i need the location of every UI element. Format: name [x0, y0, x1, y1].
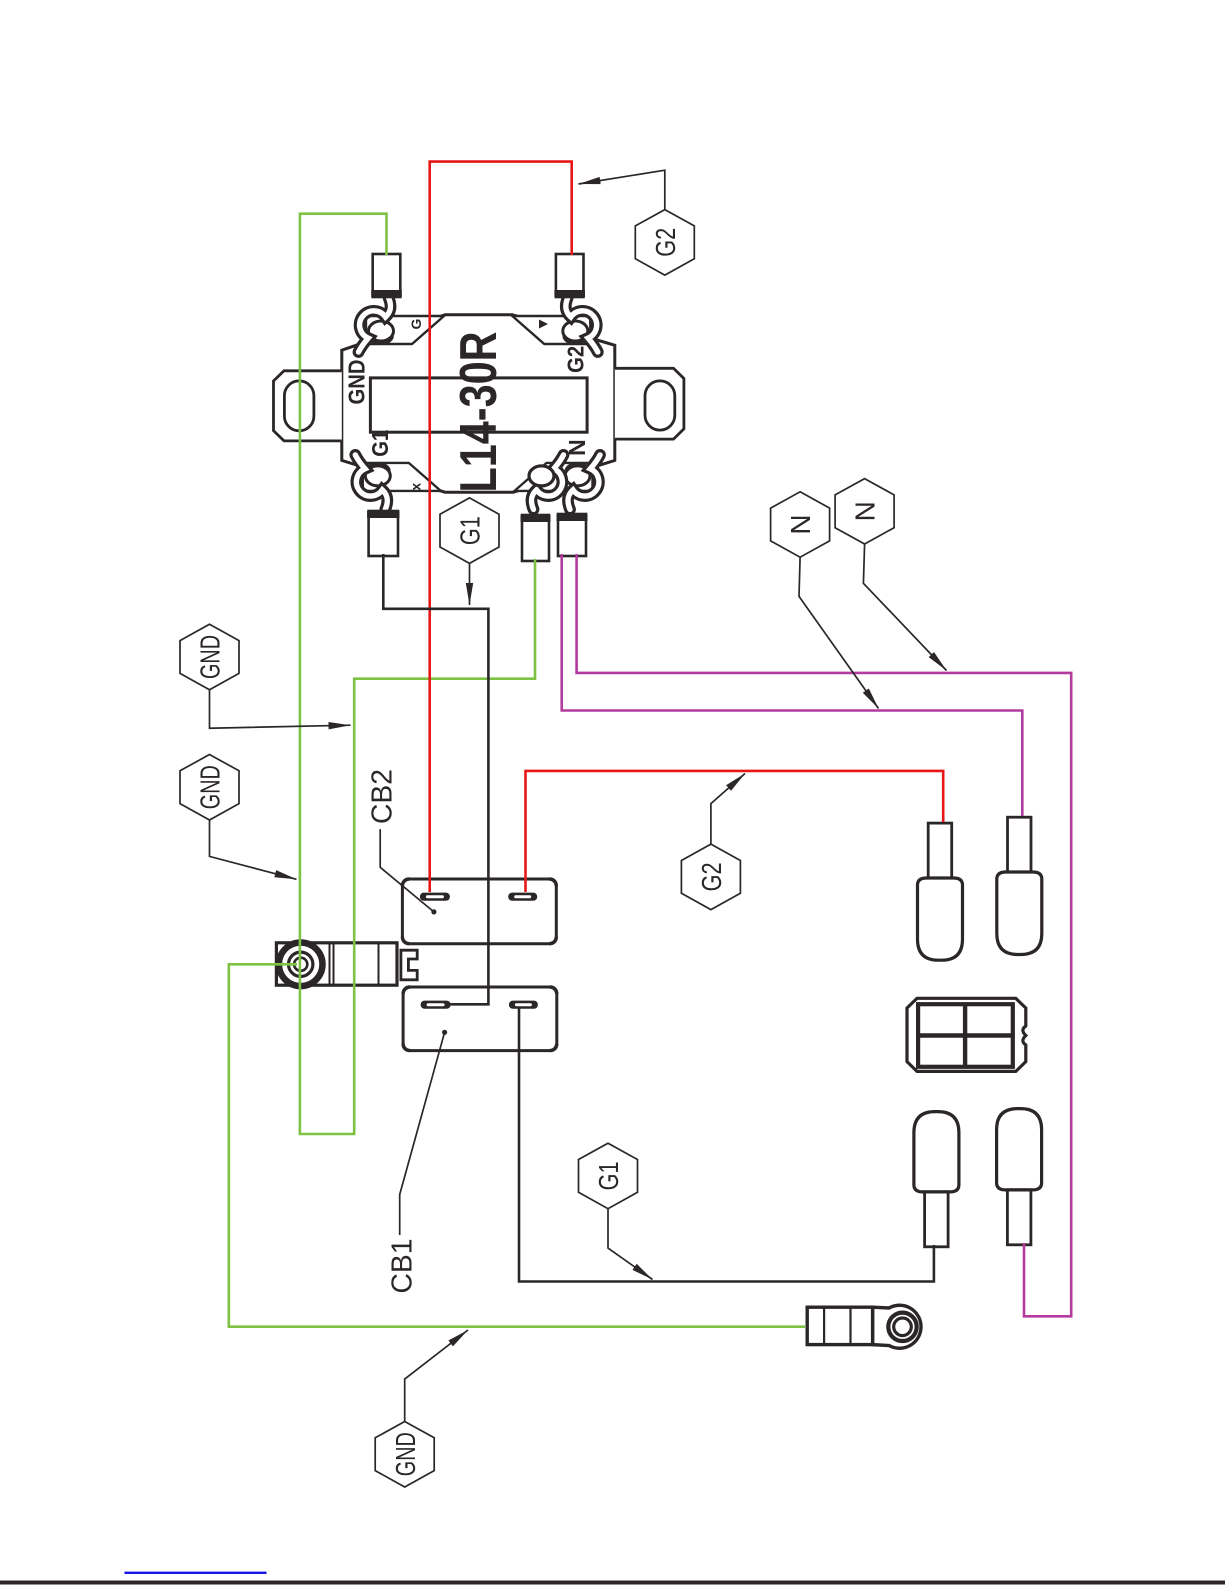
net flag N left (N) — [771, 492, 830, 557]
net flag G2 top (G2) — [635, 210, 694, 276]
wire black G1 (receptacle to CB1) — [383, 554, 488, 1004]
footer link underline (blue) — [125, 1572, 267, 1574]
leader line N right to magenta wire — [863, 544, 946, 671]
ferrule GND wire crimp — [371, 254, 402, 297]
terminal label G1 — [367, 430, 393, 457]
wire green ground jumper (ring terminal to ring terminal) — [229, 964, 805, 1326]
small terminal mark G — [408, 318, 424, 329]
leader line G2 top to red wire — [579, 170, 665, 210]
wire green GND loop (receptacle GND terminal to W terminal) — [300, 214, 535, 1134]
terminal label GND — [343, 360, 369, 405]
leader line GND upper to green wire — [210, 690, 351, 728]
bullet connector upper right (magenta) — [997, 817, 1042, 954]
receptacle face rectangle — [370, 378, 587, 432]
net flag GND upper (GND) — [180, 624, 239, 690]
svg-text:G2: G2 — [650, 228, 681, 257]
mounting ear left — [274, 371, 342, 441]
svg-text:GND: GND — [343, 360, 369, 405]
leader line G1 mid to black wire — [469, 563, 471, 605]
terminal plate+screw+hook GND (top-left) — [359, 298, 445, 353]
svg-text:L14-30R: L14-30R — [450, 332, 508, 493]
bullet connector lower left (black) — [914, 1112, 959, 1247]
svg-text:CB1: CB1 — [387, 1239, 419, 1294]
wire black G1 feed (CB1 to bullet) — [519, 1007, 934, 1282]
svg-text:CB2: CB2 — [367, 769, 399, 824]
svg-text:GND: GND — [195, 635, 226, 679]
net flag G1 mid (G1) — [440, 498, 499, 564]
label CB1 with leader — [387, 1030, 448, 1294]
mounting ear right — [615, 368, 684, 439]
page bottom border — [0, 1581, 1225, 1585]
svg-text:N: N — [564, 439, 590, 456]
net flag G2 bottom (G2) — [681, 844, 740, 910]
ring terminal (engine ground, left) — [276, 943, 417, 987]
ferrule N wire crimp — [557, 514, 588, 556]
small terminal mark W arrow — [539, 320, 548, 329]
wire magenta N (receptacle to bullet upper) — [562, 554, 1023, 816]
small terminal mark X — [408, 483, 424, 491]
wire red G2 (CB2 to receptacle G2 terminal) — [430, 162, 572, 892]
bullet connector lower right (magenta) — [997, 1109, 1042, 1245]
net flag GND bottom (GND) — [375, 1422, 434, 1488]
receptacle text L14-30R — [450, 332, 508, 493]
bullet connector upper left (red) — [918, 823, 963, 960]
wire red G2 feed (CB2 to bullet) — [526, 771, 944, 892]
leader line G1 bottom to black wire — [608, 1209, 653, 1280]
terminal label G2 — [563, 346, 589, 373]
ring terminal (ground lug, bottom) — [807, 1305, 921, 1348]
receptacle body L14-30R outlet (octagon) — [342, 315, 615, 493]
svg-text:N: N — [785, 514, 816, 534]
ferrule W wire crimp — [521, 515, 551, 561]
svg-text:G2: G2 — [696, 862, 727, 891]
4-way connector block — [907, 998, 1026, 1071]
svg-text:G1: G1 — [593, 1161, 624, 1190]
leader line GND bottom to green wire — [405, 1330, 468, 1422]
svg-text:G1: G1 — [455, 516, 486, 545]
terminal label N — [564, 439, 590, 456]
svg-text:GND: GND — [390, 1432, 421, 1476]
ferrule G2 wire crimp — [554, 254, 585, 297]
label CB2 with leader — [367, 769, 437, 915]
circuit breaker CB1 — [403, 987, 557, 1051]
svg-text:GND: GND — [195, 765, 226, 809]
terminal plate+screws+hooks N/W (bottom-right, two wires) — [515, 455, 601, 510]
terminal plate+screw+hook G1 (bottom-left) — [355, 455, 441, 510]
leader line N left to magenta wire — [799, 557, 879, 708]
leader line GND lower to green wire — [210, 820, 297, 879]
svg-text:G2: G2 — [563, 346, 589, 373]
net flag N right (N) — [835, 479, 894, 544]
net flag GND lower (GND) — [180, 755, 239, 821]
svg-text:N: N — [850, 501, 881, 521]
wire magenta N (receptacle to bullet lower) — [577, 554, 1072, 1316]
leader line G2 bottom to red wire — [711, 774, 745, 844]
svg-text:G: G — [408, 318, 424, 329]
ferrule G1 wire crimp — [367, 511, 399, 556]
net flag G1 bottom (G1) — [579, 1143, 638, 1209]
svg-text:G1: G1 — [367, 430, 393, 457]
circuit breaker CB2 — [402, 879, 556, 944]
terminal plate+screw+hook G2 (top-right) — [512, 298, 598, 353]
svg-text:x: x — [408, 483, 424, 491]
